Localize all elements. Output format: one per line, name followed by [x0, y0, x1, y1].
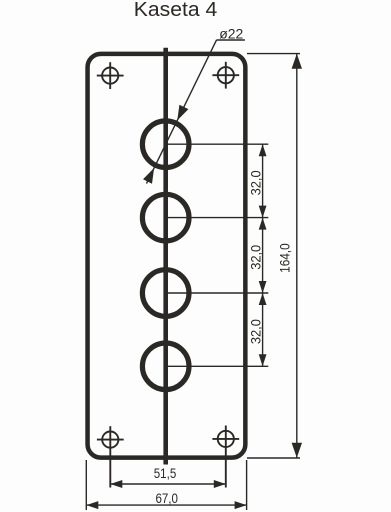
svg-text:32,0: 32,0: [249, 245, 264, 270]
svg-text:32,0: 32,0: [249, 319, 264, 344]
svg-text:Kaseta 4: Kaseta 4: [134, 0, 218, 21]
svg-text:51,5: 51,5: [154, 466, 177, 482]
svg-text:32,0: 32,0: [249, 170, 264, 195]
svg-text:ø22: ø22: [219, 26, 243, 42]
svg-text:164,0: 164,0: [278, 243, 293, 273]
svg-text:67,0: 67,0: [155, 491, 178, 507]
